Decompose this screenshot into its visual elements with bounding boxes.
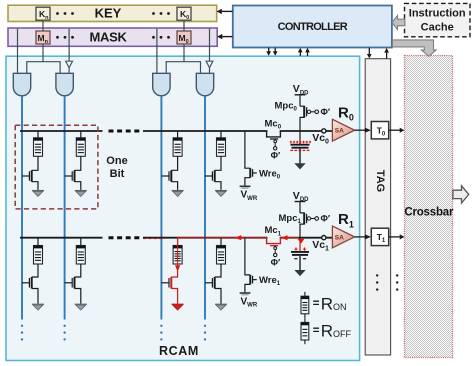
ground cellR1B2 <box>172 304 184 310</box>
memristor cellR1B2 <box>173 246 182 265</box>
wire capacitor to ground row0 <box>299 148 301 163</box>
match line ML0 break dashes <box>109 130 141 133</box>
capacitor C1 <box>291 252 309 255</box>
tag bit box T0 <box>371 122 388 139</box>
svg-text:Bit: Bit <box>110 168 125 180</box>
write-enable transistor Wre0 <box>245 131 257 186</box>
charge minus row C0 <box>290 149 309 151</box>
VWR terminal Wre1 <box>240 293 251 295</box>
search bit line SL1 <box>64 96 66 320</box>
RCAM array box <box>6 56 360 360</box>
MASK dots right <box>152 36 170 39</box>
wire match line to memristor cellR0B3 <box>220 131 222 138</box>
svg-text:One: One <box>106 155 127 167</box>
search bit line SL0 <box>21 96 23 320</box>
match line ML0 left segment <box>20 130 103 132</box>
tag bit box T1 <box>371 228 388 245</box>
wire mask bar pair1 <box>166 62 200 74</box>
svg-text:Instruction: Instruction <box>409 8 466 20</box>
memristor cellR0B1 <box>76 138 85 157</box>
gate wire from bit line cellR1B1 <box>65 282 73 284</box>
TAG column box <box>365 59 390 355</box>
ground arrow row1 <box>294 270 305 276</box>
gate wire from bit line cellR0B1 <box>65 175 73 177</box>
VWR terminal Wre0 <box>240 186 251 188</box>
match line ML1 right segment <box>143 237 333 239</box>
memristor cellR0B0 <box>34 138 43 157</box>
key cell Kn <box>36 7 50 20</box>
svg-text:=: = <box>313 298 320 310</box>
instruction cache box <box>405 3 471 36</box>
wire match line to memristor cellR0B2 <box>177 131 179 138</box>
svg-text:RCAM: RCAM <box>159 344 199 358</box>
memristor cellR1B1 <box>76 246 85 265</box>
ground cellR0B3 <box>215 191 227 197</box>
red dashes on match line 1 <box>143 238 165 240</box>
svg-text:TAG: TAG <box>374 170 386 192</box>
svg-text:Φ′: Φ′ <box>271 257 281 267</box>
wire mask stem pair1 <box>183 45 185 62</box>
one bit cell dashed outline <box>15 125 98 209</box>
sense amp SA1 <box>332 226 354 248</box>
AND gate G3 <box>196 73 213 95</box>
transistor cellR1B2 <box>161 264 177 304</box>
ground cellR0B1 <box>75 191 87 197</box>
node Vc0 <box>322 129 326 133</box>
VDD rail row0 <box>295 94 306 96</box>
red arrow below memristor R1B2 <box>175 265 180 271</box>
block arrow controller to crossbar (elbow) <box>393 40 437 57</box>
svg-text:Crossbar: Crossbar <box>404 207 454 219</box>
controller box <box>233 6 392 48</box>
gate wire from bit line cellR1B3 <box>205 282 212 284</box>
match line ML1 break dashes <box>109 236 141 239</box>
wire match line to memristor cellR1B0 <box>37 238 39 246</box>
AND gate G2 <box>153 73 170 96</box>
ground arrow row0 <box>294 163 305 169</box>
ground cellR1B0 <box>32 304 44 310</box>
legend RON memristor icon <box>304 292 306 296</box>
wire key branch right pair0 <box>68 29 70 62</box>
inverter pair0 <box>66 61 73 67</box>
charge plus row C0 <box>290 141 311 143</box>
wire key branch left pair0 <box>17 29 19 74</box>
wire match node to capacitor row1 <box>299 238 301 252</box>
wire key branch right pair1 <box>209 29 211 62</box>
match line ML1 left segment <box>20 237 103 239</box>
wire controller down to TAG <box>368 48 370 55</box>
red wire down through memristor cell R1B2 <box>177 238 179 265</box>
wire T1 to crossbar <box>389 236 400 238</box>
legend ROFF memristor icon <box>304 318 306 322</box>
precharge transistor Mpc0 <box>300 106 319 131</box>
block arrow crossbar output <box>453 186 469 203</box>
memristor cellR1B3 <box>217 246 226 265</box>
node Vc1 <box>322 236 326 240</box>
wire controller to MASK <box>222 36 233 38</box>
block arrow instruction cache to controller <box>392 16 405 30</box>
transistor cellR0B2 <box>161 156 177 190</box>
wire controller down to RCAM 0 <box>268 48 270 52</box>
precharge transistor Mpc1 <box>300 213 319 238</box>
KEY dots right <box>152 12 170 15</box>
charge plus marks C1 <box>294 247 306 250</box>
search bit line SL2 <box>160 96 162 320</box>
wire capacitor to ground row1 <box>299 255 301 270</box>
wire match line to memristor cellR0B0 <box>37 131 39 138</box>
svg-text:SA: SA <box>335 128 344 135</box>
transistor cellR0B1 <box>65 156 81 190</box>
pass transistor Mc0 <box>267 130 281 150</box>
svg-text:Cache: Cache <box>421 22 454 34</box>
charge minus marks C1 <box>294 258 306 260</box>
red arrow into capacitor junction <box>298 239 305 244</box>
AND gate G0 <box>13 73 30 95</box>
tag dots column 1 <box>376 274 378 291</box>
bit line continuation dots SL3 <box>204 325 206 341</box>
wire TAG up to controller <box>386 52 388 58</box>
capacitor C0 <box>291 145 310 148</box>
svg-text:Φ′: Φ′ <box>271 151 281 161</box>
wire K0 to M0 <box>183 20 185 31</box>
ground cellR0B2 <box>172 191 184 197</box>
red wire capacitor stem row1 <box>299 241 301 252</box>
gate wire from bit line cellR0B3 <box>205 175 212 177</box>
wire controller to KEY <box>222 10 233 12</box>
memristor cellR0B3 <box>217 138 226 157</box>
wire key branch left pair1 <box>156 29 158 74</box>
mask cell M0 <box>177 31 191 44</box>
write-enable transistor Wre1 <box>245 238 257 293</box>
ground cellR1B1 <box>75 304 87 310</box>
wire mask bar pair0 <box>27 62 60 74</box>
svg-text:CONTROLLER: CONTROLLER <box>278 21 348 33</box>
wire match node to capacitor row0 <box>299 131 301 145</box>
memristor legend RON <box>301 296 309 314</box>
transistor cellR0B0 <box>22 156 38 190</box>
KEY dots left <box>56 12 74 15</box>
red current path along match line 1 <box>178 237 267 239</box>
KEY register box <box>8 5 217 21</box>
gate wire from bit line cellR1B0 <box>22 282 29 284</box>
crossbar box <box>405 56 453 358</box>
pass transistor Mc1 <box>267 237 281 257</box>
svg-text:SA: SA <box>335 234 344 241</box>
svg-text:Φ′: Φ′ <box>321 214 331 224</box>
wire Kn to Mn <box>42 20 44 31</box>
gate wire from bit line cellR0B2 <box>161 175 169 177</box>
VDD rail row1 <box>295 201 306 203</box>
svg-text:MASK: MASK <box>89 29 127 44</box>
wire T0 to crossbar <box>389 129 400 131</box>
memristor cellR0B2 <box>173 138 182 157</box>
red arrow on match line 1 right of Mc1 <box>281 235 287 240</box>
bit line continuation dots SL2 <box>160 325 162 341</box>
memristor cellR1B0 <box>34 246 43 265</box>
inverter pair1 <box>206 61 213 67</box>
wire RCAM up to controller 1 <box>307 52 309 56</box>
ground cellR1B3 <box>215 304 227 310</box>
AND gate G1 <box>56 73 73 96</box>
memristor legend ROFF <box>301 322 309 340</box>
arrowhead into MASK <box>217 34 222 39</box>
bit line continuation dots SL1 <box>63 325 65 341</box>
MASK register box <box>8 28 217 46</box>
sense amp SA0 <box>332 119 354 141</box>
red arrow on match line 1 left of Wre <box>235 235 242 240</box>
gate wire from bit line cellR0B0 <box>22 175 29 177</box>
wire RCAM up to controller 0 <box>299 52 301 56</box>
search bit line SL3 <box>204 96 206 320</box>
arrowhead into KEY <box>217 9 222 14</box>
wire match line to memristor cellR1B1 <box>80 238 82 246</box>
transistor cellR0B3 <box>205 156 221 190</box>
bit line continuation dots SL0 <box>21 325 23 341</box>
ground cellR0B0 <box>32 191 44 197</box>
tag dots column 2 <box>396 274 398 291</box>
svg-text:=: = <box>313 325 320 337</box>
transistor cellR1B0 <box>22 264 38 304</box>
wire match line to memristor cellR1B3 <box>220 238 222 246</box>
match line ML0 right segment <box>143 130 333 132</box>
wire controller down to RCAM 1 <box>274 48 276 52</box>
svg-text:Φ′: Φ′ <box>321 107 331 117</box>
gate wire from bit line cellR1B2 <box>161 282 169 284</box>
transistor cellR1B3 <box>205 264 221 304</box>
transistor cellR1B1 <box>65 264 81 304</box>
wire SA to T0 <box>355 129 365 131</box>
mask cell Mn <box>36 31 50 44</box>
wire mask stem pair0 <box>42 45 44 62</box>
svg-text:KEY: KEY <box>95 5 122 20</box>
wire match line to memristor cellR0B1 <box>80 131 82 138</box>
key cell K0 <box>177 7 191 20</box>
MASK dots left <box>56 36 74 39</box>
wire match line to memristor cellR1B2 <box>177 238 179 246</box>
wire SA to T1 <box>355 236 365 238</box>
